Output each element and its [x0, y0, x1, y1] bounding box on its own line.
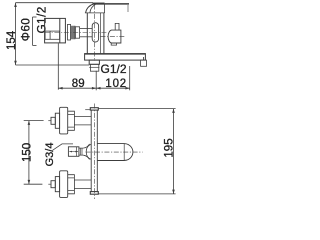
top inlet end cap — [51, 117, 55, 124]
top inlet thread section — [68, 111, 75, 130]
check valve stub on top — [115, 23, 119, 30]
handle inner rectangle — [45, 31, 60, 39]
bottom inlet hex nut — [55, 177, 59, 192]
dimension line 89-102 — [58, 87, 129, 89]
dimension 102 extension right — [129, 66, 131, 90]
shower outlet nipple — [90, 64, 98, 71]
bottom inlet flange — [60, 171, 68, 198]
svg-text:102: 102 — [105, 78, 127, 90]
shelf bracket pin — [143, 57, 145, 60]
dimension phi60 tick top — [33, 16, 37, 18]
riser column right edge — [96, 110, 98, 192]
arrows middle — [92, 87, 101, 90]
spout outlet curve outer — [86, 4, 94, 13]
dimension 150 extension top — [24, 120, 44, 122]
top inlet centerline tick — [48, 120, 51, 122]
spout right edge — [104, 4, 106, 13]
spout front centerline — [86, 151, 143, 153]
svg-text:G3/4: G3/4 — [44, 143, 56, 167]
handle stem — [68, 24, 71, 40]
arrow 89 left — [58, 87, 62, 90]
dimension 195 arrow top — [172, 109, 175, 113]
dimension 89 extension left — [57, 44, 59, 90]
svg-text:G1/2: G1/2 — [101, 62, 127, 76]
cartridge capsule — [92, 23, 98, 42]
column left bulge at spout level — [86, 144, 91, 159]
dimension 154 extension line top — [16, 2, 94, 4]
riser bottom foot — [90, 192, 98, 195]
bottom inlet centerline tick — [48, 183, 51, 185]
dimension phi60 tick bottom — [33, 44, 37, 46]
svg-text:89: 89 — [72, 78, 85, 90]
riser column left edge — [90, 110, 92, 192]
dimension 154 arrow top — [14, 3, 17, 7]
dimension 154 line — [15, 3, 17, 65]
spout top bar to wall end — [105, 3, 129, 5]
bottom inlet end cap — [51, 181, 55, 188]
svg-text:Φ60: Φ60 — [20, 18, 32, 41]
G3/4 fitting inner arrows — [69, 151, 78, 153]
check valve centerline — [101, 36, 126, 38]
stray line left of riser cap — [85, 109, 90, 111]
spout top edge over body — [93, 3, 105, 5]
dimension 150 extension bottom — [24, 183, 43, 185]
G3/4 leader line — [53, 144, 74, 150]
dimension 195 extension bottom — [99, 193, 176, 195]
G3/4 fitting body — [68, 147, 79, 157]
shelf top thick line — [85, 53, 146, 55]
spout outlet curve inner — [90, 5, 96, 13]
connecting pipe top wall — [80, 28, 93, 30]
arrow 102 right — [125, 87, 129, 90]
wall shelf — [85, 54, 146, 61]
dimension 150 arrow top — [28, 121, 31, 125]
svg-text:G1/2: G1/2 — [36, 6, 48, 33]
body column inner line — [99, 13, 101, 54]
body column right edge — [103, 13, 105, 54]
dimension 195 extension top — [99, 108, 176, 110]
top inlet hex nut — [55, 113, 59, 128]
handle axis centerline — [45, 32, 107, 34]
check valve bottom step — [111, 43, 116, 45]
G3/4 fitting flare to column — [83, 144, 89, 160]
top inlet pipe walls — [74, 117, 91, 125]
shelf right end bracket — [141, 60, 147, 66]
G3/4 fitting inner line — [76, 147, 78, 156]
riser column centerline — [93, 104, 95, 200]
handle stem thread — [71, 26, 75, 40]
dimension 154 arrow bottom — [14, 61, 17, 65]
svg-text:154: 154 — [6, 30, 18, 50]
spout underside — [85, 12, 105, 14]
svg-text:150: 150 — [21, 143, 33, 162]
G3/4 fitting thread — [79, 148, 83, 155]
spout front cap tangent line — [123, 144, 125, 161]
handle body outline — [45, 18, 66, 43]
dimension 154 extension line bottom — [16, 64, 90, 66]
handle collar — [75, 27, 79, 38]
svg-text:195: 195 — [164, 138, 176, 157]
dimension 102 extension dash at spout end — [127, 5, 129, 12]
dimension 150 line — [28, 121, 30, 185]
dimension 150 arrow bottom — [28, 180, 31, 184]
dimension 195 line — [173, 109, 175, 194]
dimension phi60 line — [32, 17, 34, 45]
riser top cap — [90, 108, 98, 110]
handle inner vertical line — [59, 18, 61, 43]
top inlet flange — [60, 107, 68, 134]
shower outlet nut below shelf — [89, 60, 99, 64]
body column left edge — [86, 13, 88, 54]
body vertical centerline — [93, 5, 95, 62]
bottom inlet pipe walls — [74, 180, 91, 188]
dimension 195 arrow bottom — [172, 190, 175, 194]
G3/4 fitting internal centerline — [69, 151, 78, 153]
dimension extension middle — [95, 71, 97, 91]
connecting pipe bottom wall — [80, 36, 93, 38]
bottom inlet thread section — [68, 175, 75, 194]
shower outlet mid line — [89, 66, 99, 68]
spout front view body — [97, 144, 132, 161]
check valve body — [108, 30, 121, 43]
handle inner box divider — [49, 31, 51, 39]
